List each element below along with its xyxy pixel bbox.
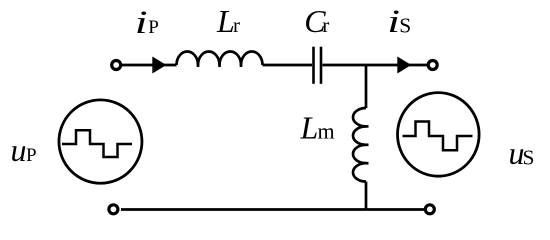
svg-text:L: L: [216, 3, 235, 39]
svg-text:L: L: [300, 110, 319, 146]
svg-text:u: u: [11, 132, 27, 168]
svg-text:P: P: [148, 17, 159, 38]
svg-text:S: S: [399, 14, 411, 38]
svg-text:S: S: [523, 146, 535, 170]
svg-text:r: r: [322, 13, 329, 37]
svg-text:i: i: [387, 2, 400, 39]
svg-text:i: i: [135, 3, 148, 40]
svg-text:r: r: [233, 13, 240, 37]
svg-text:P: P: [26, 145, 37, 166]
svg-text:m: m: [318, 119, 335, 144]
